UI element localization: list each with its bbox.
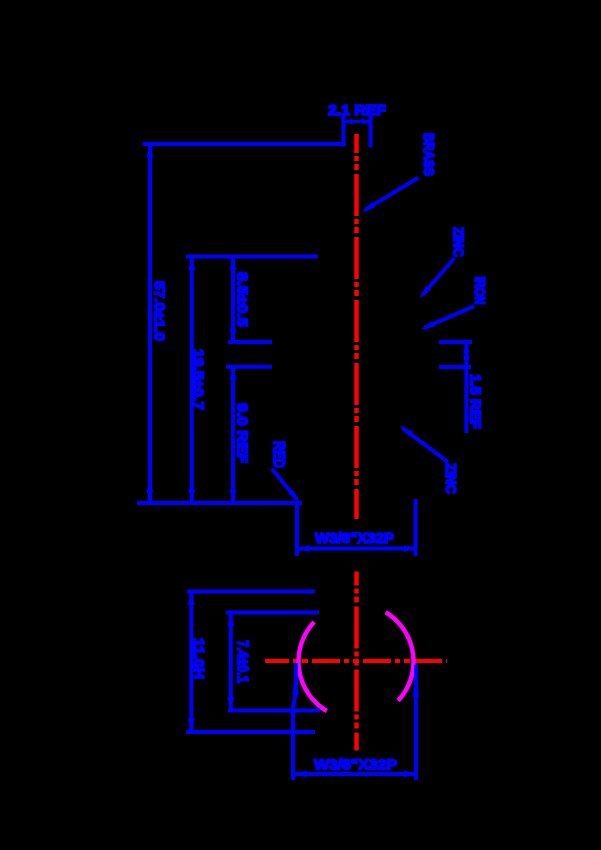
dimension 11.0H top extension line	[187, 590, 315, 594]
dimension W3/8"X32P arrow right	[404, 545, 418, 552]
extension line thread right x=416	[414, 499, 418, 556]
svg-text:2.1 REF: 2.1 REF	[328, 102, 386, 119]
dimension 1.5 REF arrow bottom	[463, 356, 470, 367]
extension line thread circle left x=296	[293, 663, 296, 780]
dimension 7.4±0.1 dimension line	[229, 613, 233, 711]
svg-text:ZINC: ZINC	[442, 463, 459, 494]
dimension W3/8"X32P dimension line	[296, 547, 418, 551]
leader RED	[272, 469, 297, 500]
dimension 1.5 REF arrow top	[463, 343, 470, 354]
dimension 2.1 REF extension line left	[342, 116, 346, 147]
leader BRASS	[365, 178, 419, 211]
leader IRON arrow	[421, 321, 435, 330]
svg-text:11.0H: 11.0H	[190, 638, 207, 679]
leader ZINC arrow	[420, 286, 432, 299]
centerline top view (red dash-dot)	[354, 134, 359, 519]
dimension 11.0H arrow bottom	[188, 719, 195, 733]
extension line shoulder y=255	[186, 255, 318, 259]
svg-text:ZINC: ZINC	[450, 227, 467, 257]
extension line thread circle right x=415.8	[414, 665, 418, 780]
centerline bottom view horizontal (red dash-dot)	[265, 659, 447, 663]
dimension 2.1 REF arrow left	[345, 118, 353, 125]
thread circle right arc (magenta)	[386, 612, 414, 701]
dimension W3/8"X32P bottom view arrow right	[404, 771, 418, 778]
thread circle left arc (magenta)	[299, 622, 327, 711]
dimension 2.1 REF dimension line	[345, 120, 369, 123]
leader ZINC lower arrow	[400, 426, 413, 437]
svg-text:19.5±0.7: 19.5±0.7	[190, 349, 207, 410]
dimension 7.4±0.1 top extension line	[226, 611, 319, 615]
svg-text:7.4±0.1: 7.4±0.1	[234, 640, 251, 683]
extension line thread circle right taper arrow	[413, 664, 419, 698]
leader RED arrow	[288, 490, 299, 503]
dimension 7.4±0.1 arrow bottom	[227, 697, 234, 711]
dimension W3/8"X32P bottom view arrow left	[293, 771, 307, 778]
svg-text:8.5±0.5: 8.5±0.5	[234, 272, 251, 327]
leader IRON	[424, 306, 475, 328]
extension line groove upper left y=342	[228, 340, 272, 344]
dimension 9.0 REF dimension line	[231, 367, 235, 503]
svg-text:1.5 REF: 1.5 REF	[467, 374, 484, 429]
dimension 7.4±0.1 arrow top	[227, 613, 234, 627]
centerline bottom view vertical (red dash-dot)	[354, 572, 359, 751]
dimension 19.5±0.7 arrow top	[188, 257, 195, 271]
dimension 9.0 REF arrow bottom	[230, 490, 237, 504]
extension line groove lower right y=367	[439, 365, 471, 369]
dimension 19.5±0.7 dimension line	[190, 257, 194, 504]
dimension 19.5±0.7 arrow bottom	[188, 490, 195, 504]
extension line thread circle left taper arrow	[293, 662, 299, 695]
dimension 8.5±0.5 arrow top	[230, 257, 237, 271]
svg-text:W3/8"X32P: W3/8"X32P	[315, 530, 394, 547]
dimension 8.5±0.5 dimension line	[231, 257, 235, 343]
dimension 57.0±1.0 arrow top	[147, 144, 154, 158]
dimension W3/8"X32P arrow left	[296, 545, 310, 552]
leader BRASS arrow	[362, 202, 376, 212]
leader ZINC lower	[403, 428, 449, 462]
dimension 8.5±0.5 arrow bottom	[230, 329, 237, 343]
svg-text:57.0±1.0: 57.0±1.0	[151, 281, 168, 341]
svg-text:W3/8"X32P: W3/8"X32P	[314, 757, 397, 774]
dimension 7.4±0.1 bottom extension line	[228, 709, 320, 713]
dimension 11.0H bottom extension line	[186, 730, 315, 734]
dimension 9.0 REF arrow top	[230, 367, 237, 381]
leader ZINC	[423, 258, 455, 295]
dimension 11.0H dimension line	[189, 592, 193, 733]
dimension W3/8"X32P bottom view dimension line	[293, 772, 418, 776]
svg-text:RED: RED	[270, 441, 289, 468]
dimension 57.0±1.0 arrow bottom	[147, 490, 154, 504]
dimension 11.0H arrow top	[188, 592, 195, 606]
extension line bottom of body y=503	[137, 501, 302, 505]
extension line thread left x=298	[295, 503, 299, 556]
svg-text:BRASS: BRASS	[420, 133, 437, 176]
dimension 2.1 REF arrow right	[362, 118, 370, 125]
extension line top of part y=145	[143, 142, 346, 146]
dimension 1.5 REF dimension line	[464, 342, 468, 433]
dimension 2.1 REF extension line right	[369, 116, 373, 148]
extension line groove lower left y=367	[226, 365, 272, 369]
extension line groove upper right y=342	[439, 340, 472, 344]
dimension 57.0±1.0 dimension line	[148, 144, 152, 503]
svg-text:IRON: IRON	[471, 277, 488, 305]
svg-text:9.0 REF: 9.0 REF	[234, 403, 251, 463]
